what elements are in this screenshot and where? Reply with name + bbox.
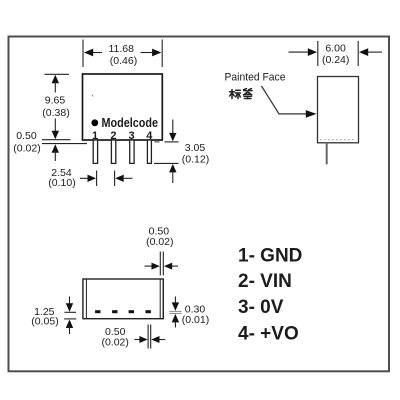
dimension 1.25 (0.05) pad offset <box>31 297 76 335</box>
border frame <box>9 37 390 372</box>
svg-text:(0.12): (0.12) <box>182 153 209 165</box>
svg-text:(0.01): (0.01) <box>182 314 209 326</box>
leader line to painted face <box>262 86 317 118</box>
pad 4 <box>146 310 151 313</box>
side view package outline <box>318 77 359 143</box>
pin list: 1- GND <box>238 245 302 266</box>
small mark inside package <box>92 95 93 97</box>
svg-text:(0.05): (0.05) <box>31 316 58 328</box>
pin list: 3- 0V <box>238 297 284 318</box>
dimension 0.30 (0.01) pad height <box>169 297 209 328</box>
svg-text:2- VIN: 2- VIN <box>238 271 292 292</box>
pin number 1 <box>92 130 98 142</box>
seating tick right of package <box>155 141 160 143</box>
svg-text:(0.02): (0.02) <box>101 337 128 349</box>
svg-text:3- 0V: 3- 0V <box>238 297 284 318</box>
dimension 0.50 (0.02) wall top right <box>145 225 179 275</box>
pin number 2 <box>110 130 116 142</box>
Painted Face label <box>225 71 286 83</box>
dimension 2.54 (0.10) pin pitch <box>48 167 132 189</box>
pin 1 lead <box>93 140 97 163</box>
svg-text:(0.10): (0.10) <box>48 177 75 189</box>
Chinese label biao (标) <box>230 90 241 99</box>
svg-text:6.00: 6.00 <box>325 43 346 55</box>
bottom view left wall line <box>85 279 87 319</box>
svg-text:(0.46): (0.46) <box>110 55 137 67</box>
front view package outline <box>83 74 163 140</box>
svg-text:9.65: 9.65 <box>45 95 66 107</box>
dimension 3.05 (0.12) pin length <box>154 120 209 184</box>
pin list: 4- +VO <box>238 323 299 344</box>
svg-text:1- GND: 1- GND <box>238 245 302 266</box>
svg-text:4- +VO: 4- +VO <box>238 323 299 344</box>
pin list: 2- VIN <box>238 271 292 292</box>
svg-text:(0.02): (0.02) <box>146 236 173 248</box>
dimension 9.65 (0.38) height <box>42 74 69 139</box>
svg-text:11.68: 11.68 <box>108 43 134 55</box>
pad 1 <box>95 310 100 313</box>
bottom view right wall line <box>159 279 161 319</box>
pad 2 <box>112 310 117 313</box>
dimension 6.00 (0.24) depth <box>289 41 383 66</box>
svg-text:Modelcode: Modelcode <box>102 115 159 130</box>
pin number 4 <box>146 130 153 142</box>
side view paint line (dotted) <box>320 139 356 141</box>
svg-text:(0.38): (0.38) <box>42 107 69 119</box>
side view pin lead <box>326 144 328 164</box>
dimension 0.50 (0.02) pad width bottom <box>101 325 165 349</box>
pin 3 lead <box>130 140 134 163</box>
bottom view package outline <box>83 279 163 319</box>
svg-text:3.05: 3.05 <box>185 142 206 154</box>
pin 4 lead <box>147 140 151 163</box>
Chinese label qian (签) <box>244 89 253 99</box>
pad 3 <box>129 310 134 313</box>
Modelcode label <box>102 115 159 130</box>
dimension 0.50 (0.02) standoff <box>13 130 87 161</box>
svg-text:Painted Face: Painted Face <box>225 71 286 83</box>
pin 2 lead <box>111 140 115 163</box>
dimension 11.68 (0.46) width <box>83 40 162 68</box>
svg-text:(0.24): (0.24) <box>322 54 349 66</box>
svg-text:0.50: 0.50 <box>16 130 37 142</box>
model code bullet <box>91 119 98 126</box>
pin number 3 <box>129 130 135 142</box>
svg-text:(0.02): (0.02) <box>13 143 40 155</box>
